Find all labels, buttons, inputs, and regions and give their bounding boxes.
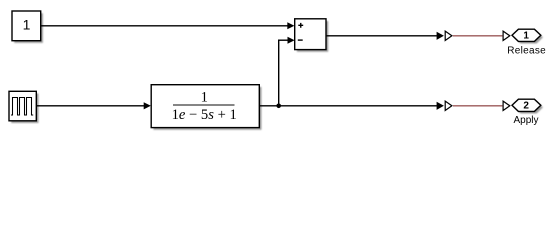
horizontal branch wire to Sum - input [278,39,288,41]
pulse generator square-wave icon [11,98,33,116]
svg-text:Release: Release [507,46,546,57]
pulse generator block [9,91,36,121]
svg-text:2: 2 [523,101,529,112]
wire from Constant to Sum + input [41,25,289,27]
red signal line (Release branch) [453,35,503,37]
vertical branch wire up to Sum - input [278,40,280,106]
transfer function fraction bar [173,104,235,106]
outport hexagon 2 shadow [514,101,543,113]
svg-text:1: 1 [201,89,208,105]
arrowhead at Sum + input [287,22,294,29]
wire from Sum output to Release port arrowhead [326,35,437,37]
sum plus sign [298,23,303,28]
sum block shadow [297,21,328,52]
arrowhead ending Transfer Fcn output wire [437,102,444,110]
branch junction dot on Transfer Fcn output [276,104,281,109]
transfer function block Transfer Fcn [151,85,259,128]
outport block 1 hexagon [512,29,541,41]
svg-text:1e − 5s + 1: 1e − 5s + 1 [172,107,237,123]
hollow connection triangle right (Apply branch) [503,101,510,110]
arrowhead at Transfer Fcn input [144,102,151,109]
sum block Sum (rectangular, +-) [295,19,326,50]
arrowhead at Sum - input [288,37,295,44]
constant block Constant (value 1) [12,11,41,41]
red signal line (Apply branch) [453,105,502,107]
pulse generator block shadow [11,94,38,124]
outport hexagon 1 shadow [514,31,543,43]
transfer function block shadow [153,87,261,130]
arrowhead ending Sum output wire [437,32,444,40]
constant block Constant (value 1) shadow [14,13,43,43]
svg-text:Apply: Apply [513,115,538,126]
svg-text:1: 1 [523,31,529,42]
wire from Transfer Fcn output to Apply port arrowhead [259,105,437,107]
outport block 2 hexagon [512,99,541,111]
hollow connection triangle left (Apply branch) [445,101,452,110]
hollow connection triangle left (Release branch) [445,31,452,40]
wire from Pulse Generator to Transfer Fcn [36,105,144,107]
hollow connection triangle right (Release branch) [503,31,510,40]
sum minus sign [298,39,303,41]
svg-text:1: 1 [23,16,31,32]
